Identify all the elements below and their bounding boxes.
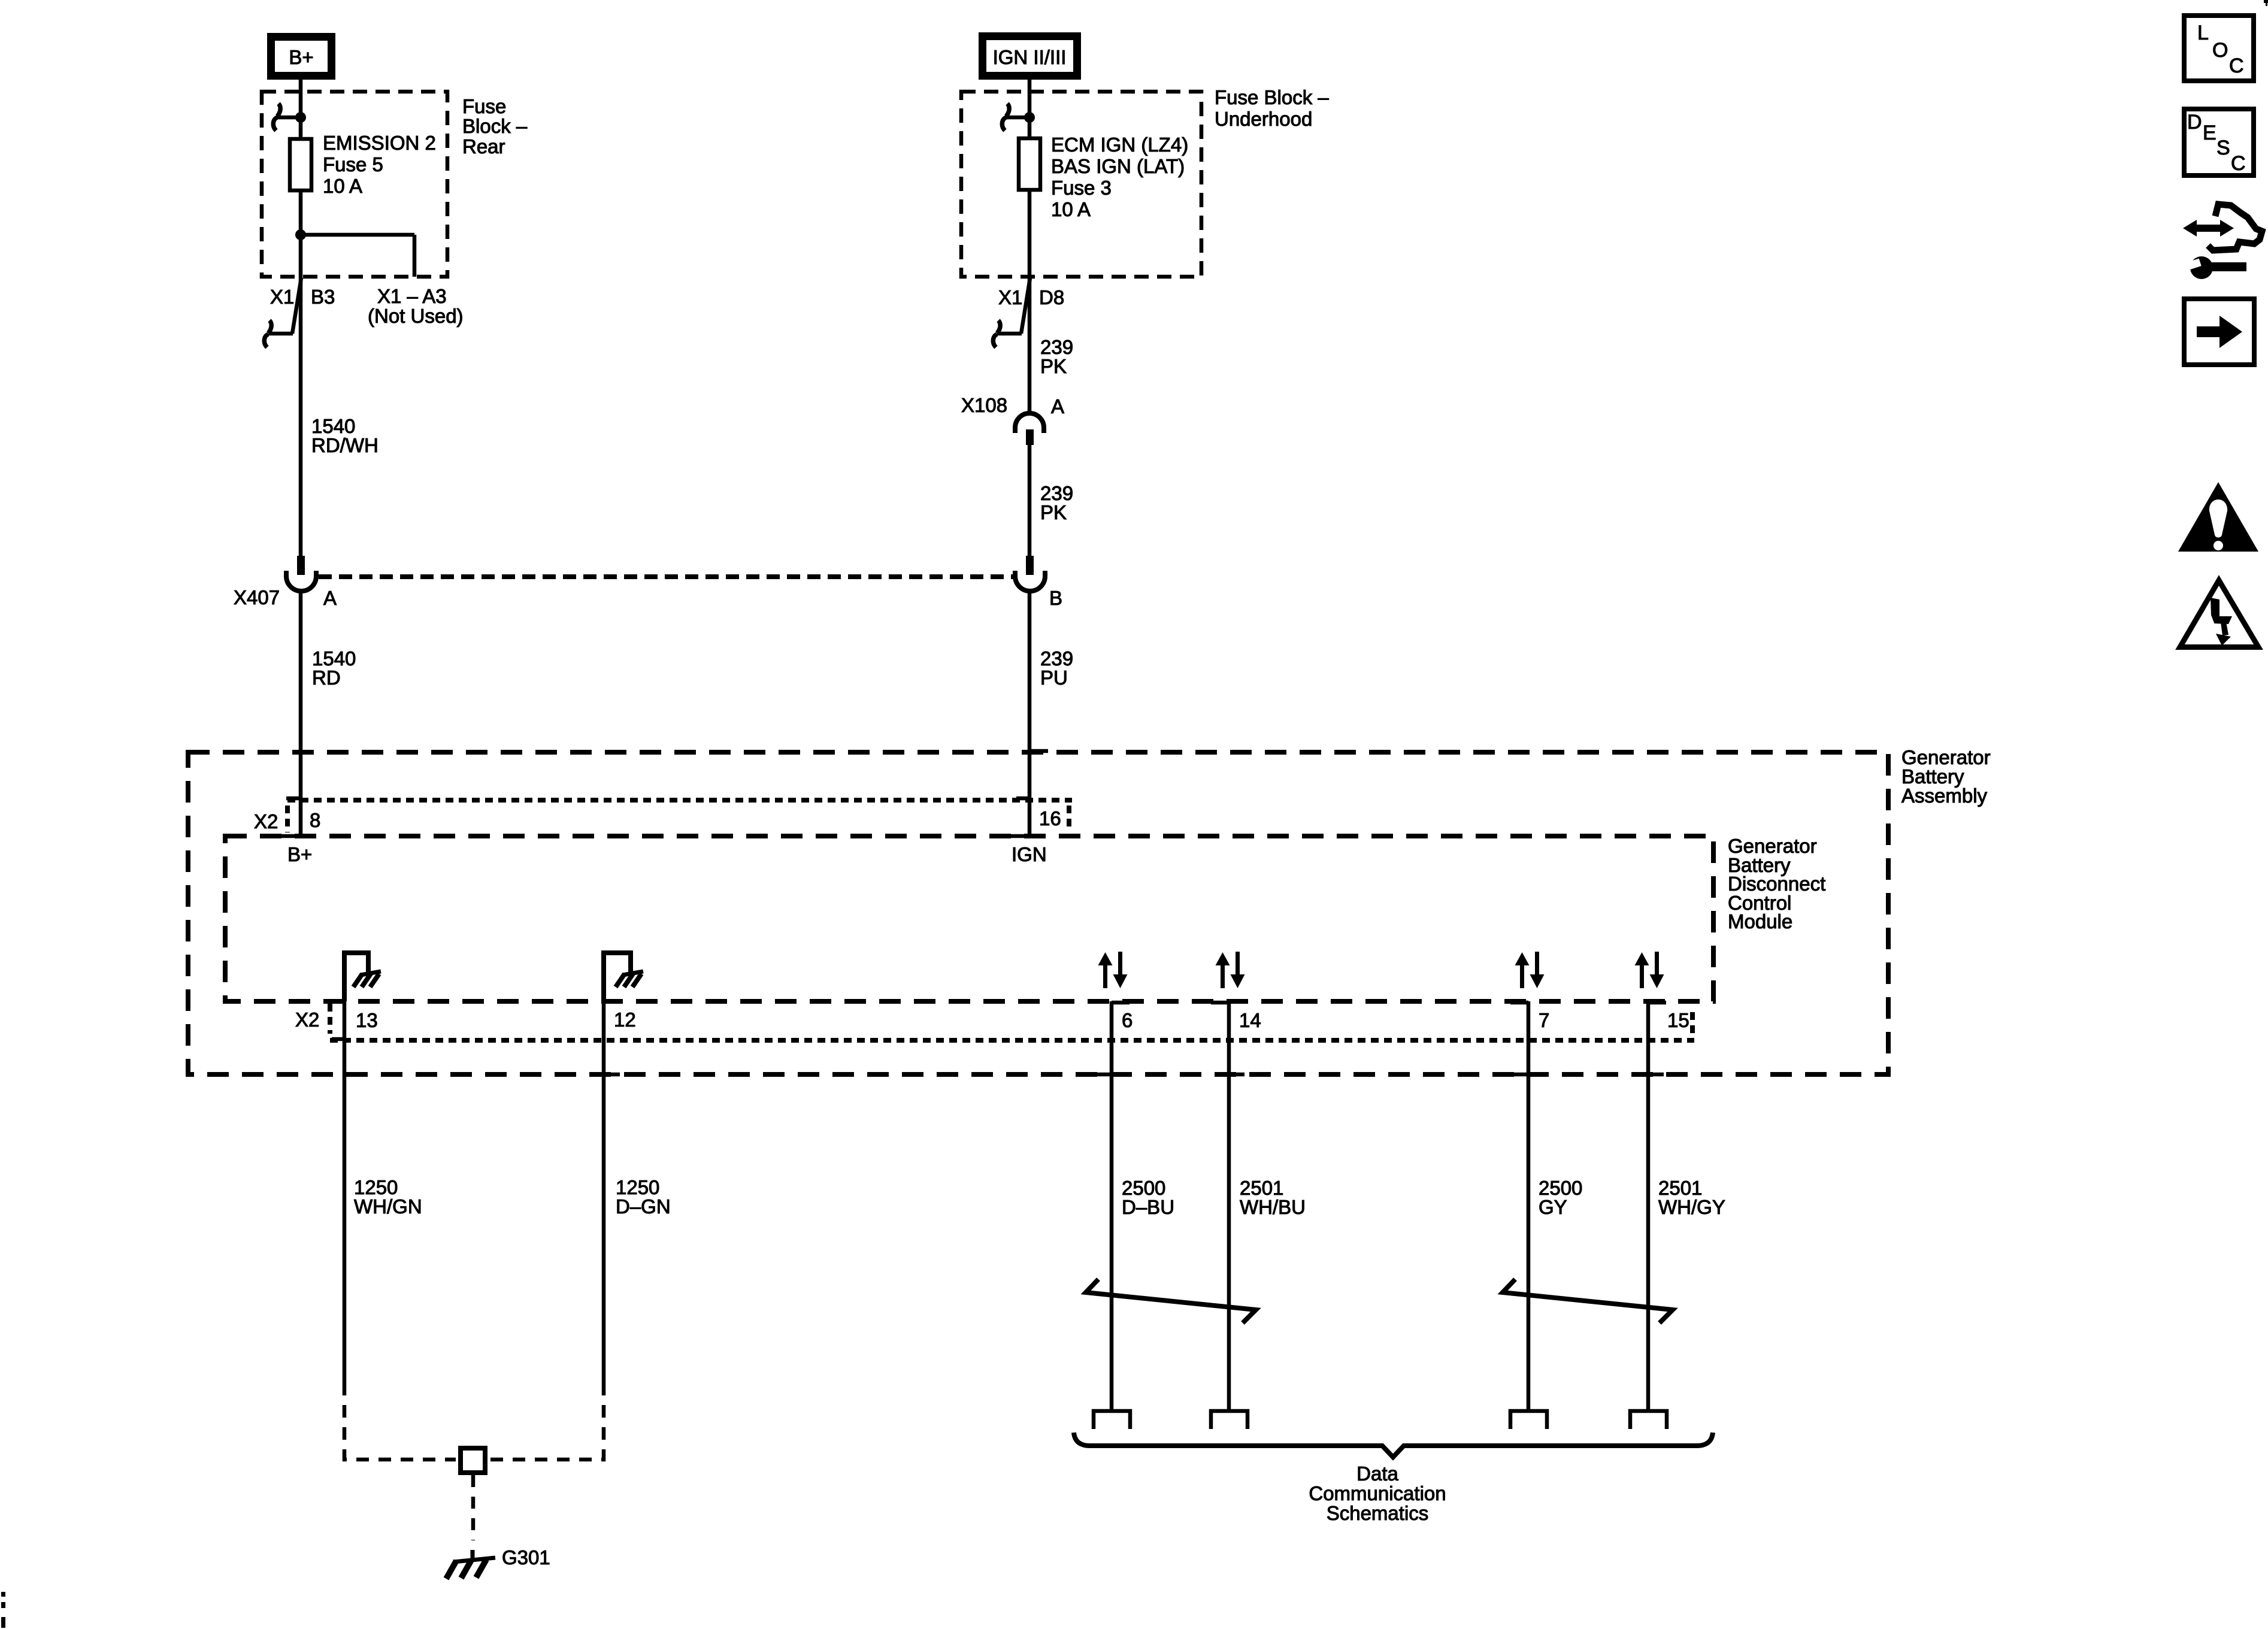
svg-text:S: S xyxy=(2216,137,2230,159)
svg-text:Underhood: Underhood xyxy=(1215,108,1312,130)
svg-text:Block –: Block – xyxy=(462,115,528,137)
svg-text:L: L xyxy=(2197,22,2209,44)
svg-text:Assembly: Assembly xyxy=(1901,785,1988,807)
svg-text:7: 7 xyxy=(1539,1009,1549,1031)
svg-text:14: 14 xyxy=(1239,1009,1261,1031)
svg-text:ECM IGN (LZ4): ECM IGN (LZ4) xyxy=(1051,134,1188,156)
svg-text:PK: PK xyxy=(1040,501,1067,523)
svg-text:O: O xyxy=(2212,39,2228,62)
svg-text:A: A xyxy=(323,587,337,609)
svg-text:C: C xyxy=(2231,152,2246,175)
svg-text:Fuse Block –: Fuse Block – xyxy=(1215,86,1329,108)
svg-text:EMISSION 2: EMISSION 2 xyxy=(323,132,436,154)
svg-text:IGN: IGN xyxy=(1012,843,1047,865)
svg-text:(Not Used): (Not Used) xyxy=(368,305,464,327)
svg-text:Rear: Rear xyxy=(462,135,505,158)
svg-text:13: 13 xyxy=(356,1009,378,1031)
svg-text:6: 6 xyxy=(1122,1009,1133,1031)
svg-text:Module: Module xyxy=(1728,910,1792,932)
svg-text:BAS IGN (LAT): BAS IGN (LAT) xyxy=(1051,155,1185,177)
svg-text:WH/BU: WH/BU xyxy=(1240,1196,1306,1218)
svg-text:X1: X1 xyxy=(270,286,294,308)
svg-text:RD/WH: RD/WH xyxy=(311,434,378,456)
svg-text:D: D xyxy=(2187,111,2202,134)
svg-text:X407: X407 xyxy=(234,586,280,608)
svg-text:12: 12 xyxy=(614,1009,636,1031)
svg-text:15: 15 xyxy=(1667,1009,1689,1031)
svg-text:8: 8 xyxy=(310,809,320,831)
svg-text:Fuse 3: Fuse 3 xyxy=(1051,177,1112,199)
svg-text:GY: GY xyxy=(1539,1196,1567,1218)
svg-text:X2: X2 xyxy=(295,1009,319,1031)
svg-text:RD: RD xyxy=(312,667,341,689)
svg-text:Data: Data xyxy=(1356,1463,1398,1485)
svg-text:B+: B+ xyxy=(287,843,312,865)
svg-text:D8: D8 xyxy=(1039,286,1064,308)
svg-text:Fuse 5: Fuse 5 xyxy=(323,153,383,175)
svg-text:D–GN: D–GN xyxy=(616,1195,671,1218)
svg-text:WH/GY: WH/GY xyxy=(1658,1196,1725,1218)
svg-text:Communication: Communication xyxy=(1309,1482,1446,1504)
svg-text:B+: B+ xyxy=(289,46,313,68)
svg-text:G301: G301 xyxy=(502,1546,550,1569)
svg-text:IGN II/III: IGN II/III xyxy=(993,46,1067,68)
svg-text:10 A: 10 A xyxy=(323,175,362,197)
svg-text:C: C xyxy=(2229,54,2244,77)
svg-text:X108: X108 xyxy=(961,394,1007,416)
svg-text:10 A: 10 A xyxy=(1051,198,1091,220)
svg-text:PK: PK xyxy=(1040,355,1067,377)
svg-text:16: 16 xyxy=(1039,807,1061,829)
svg-text:E: E xyxy=(2203,122,2216,144)
svg-text:B: B xyxy=(1049,587,1062,609)
svg-text:PU: PU xyxy=(1040,667,1068,689)
svg-text:WH/GN: WH/GN xyxy=(354,1195,422,1218)
svg-text:X2: X2 xyxy=(254,810,278,832)
svg-text:X1 – A3: X1 – A3 xyxy=(377,285,447,307)
svg-text:Schematics: Schematics xyxy=(1327,1502,1429,1524)
svg-text:Fuse: Fuse xyxy=(462,95,506,117)
svg-text:D–BU: D–BU xyxy=(1122,1196,1174,1218)
svg-text:B3: B3 xyxy=(311,286,335,308)
svg-text:A: A xyxy=(1051,395,1064,417)
svg-text:X1: X1 xyxy=(998,286,1022,308)
